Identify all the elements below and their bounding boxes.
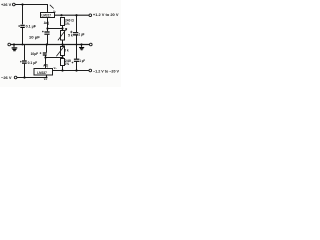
svg-text:+26 V: +26 V [1, 2, 12, 7]
svg-text:0.1 µF: 0.1 µF [26, 25, 36, 29]
svg-text:−1.2 V to −20 V: −1.2 V to −20 V [93, 70, 119, 74]
svg-text:1%: 1% [65, 62, 70, 66]
svg-text:Adj: Adj [44, 21, 49, 25]
svg-text:V₀₁: V₀₁ [44, 78, 48, 81]
svg-text:LM317: LM317 [42, 14, 52, 18]
svg-text:0.1 µF: 0.1 µF [28, 61, 38, 65]
svg-text:Adj: Adj [43, 64, 48, 68]
svg-text:10µF: 10µF [31, 52, 39, 56]
svg-text:−26 V: −26 V [1, 75, 12, 80]
svg-text:5 k: 5 k [68, 34, 73, 38]
svg-text:1%: 1% [65, 22, 70, 26]
svg-text:5 k: 5 k [64, 49, 69, 53]
svg-text:10 µF: 10 µF [29, 36, 40, 40]
svg-text:+1.2 V to 20 V: +1.2 V to 20 V [93, 13, 119, 17]
svg-text:1 µF: 1 µF [79, 33, 85, 37]
svg-text:LM337: LM337 [37, 71, 47, 75]
svg-text:1 µF: 1 µF [80, 59, 86, 63]
